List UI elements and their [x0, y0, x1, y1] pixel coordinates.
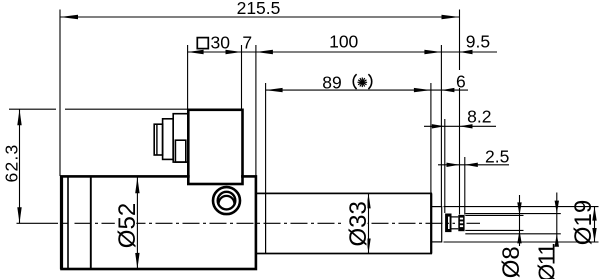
- svg-text:8.2: 8.2: [467, 106, 491, 126]
- svg-text:Ø8: Ø8: [498, 246, 525, 278]
- svg-text:Ø11: Ø11: [533, 244, 559, 279]
- svg-text:Ø19: Ø19: [570, 200, 597, 245]
- svg-text:7: 7: [242, 33, 252, 53]
- svg-text:Ø52: Ø52: [114, 203, 141, 248]
- svg-text:6: 6: [456, 72, 466, 92]
- svg-text:Ø33: Ø33: [345, 201, 372, 246]
- svg-text:2.5: 2.5: [485, 146, 509, 166]
- svg-text:100: 100: [329, 32, 358, 52]
- svg-text:89: 89: [322, 72, 341, 92]
- svg-text:62.3: 62.3: [1, 144, 21, 183]
- svg-text:30: 30: [211, 33, 231, 53]
- svg-text:9.5: 9.5: [466, 32, 490, 52]
- svg-text:215.5: 215.5: [237, 0, 281, 18]
